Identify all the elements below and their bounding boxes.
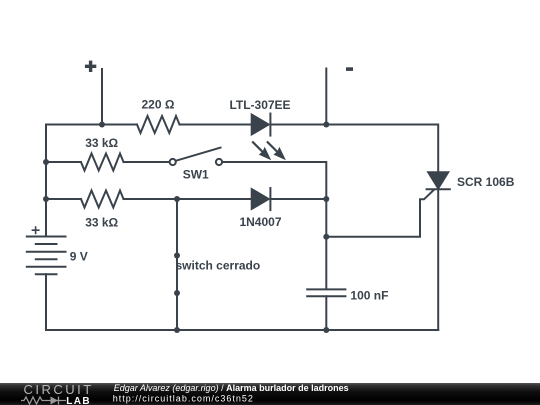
wire from capacitor to bottom rail [325,296,327,330]
node junction dot bus diode row [43,196,49,202]
battery V1 long plate 3 [27,266,66,268]
logo diode triangle [51,397,59,405]
wire from R2 to switch [124,161,170,163]
LED D1 LTL-307EE triangle [252,115,269,135]
wire battery negative to bottom rail [45,274,47,330]
LED arrow 1 shaft [253,142,264,152]
node junction dot top of plus stub [99,122,105,128]
switch SW1 lever [176,148,221,161]
wire negative terminal stub [325,69,327,125]
battery V1 short plate 3 [36,273,57,275]
svg-text:LTL-307EE: LTL-307EE [229,98,290,112]
svg-text:1N4007: 1N4007 [239,215,281,229]
svg-text:LAB: LAB [66,396,91,405]
resistor R3 33 kohm zigzag [81,191,124,208]
svg-text:SCR 106B: SCR 106B [457,175,515,189]
wire left bus vertical [45,125,47,237]
wire SCR gate run [326,190,433,237]
SCR Q1 cathode bar [427,188,450,190]
battery V1 short plate 2 [36,258,57,260]
logo diode cathode bar [58,397,60,405]
svg-text:CIRCUIT: CIRCUIT [24,382,94,397]
wire from R1 to LED anode [180,124,252,126]
node junction dot bus switch row [43,159,49,165]
svg-text:220 Ω: 220 Ω [142,98,175,112]
LED arrow 2 shaft [268,142,279,152]
LED D1 cathode bar [269,114,271,136]
resistor R1 220 ohm zigzag [137,116,180,133]
svg-text:SW1: SW1 [183,168,209,182]
svg-text:switch cerrado: switch cerrado [176,259,261,273]
wire from switch to right vertical [222,162,326,199]
node junction dot branch at bottom rail [174,327,180,333]
node junction dot diode row branch [174,196,180,202]
svg-text:Edgar Alvarez (edgar.rigo) / A: Edgar Alvarez (edgar.rigo) / Alarma burl… [114,383,349,393]
logo resistor zigzag [21,397,45,404]
capacitor C1 bottom plate [307,295,345,297]
svg-text:33 kΩ: 33 kΩ [85,216,118,230]
node junction dot switch-cerrado upper [174,253,180,259]
wire bottom rail [46,329,438,331]
wire switch row from bus to R2 [46,161,81,163]
battery V1 short plate 1 [36,243,57,245]
diode D2 1N4007 triangle [252,189,269,209]
node junction dot switch-cerrado lower [174,290,180,296]
wire switch-cerrado vertical branch [176,199,178,330]
wire from D2 cathode to right vertical [271,198,326,200]
node junction dot capacitor at bottom rail [323,327,329,333]
positive terminal symbol [85,61,96,72]
node junction dot minus stub at top rail [323,122,329,128]
wire from LED cathode to minus-node junction [271,124,326,126]
node junction dot diode cathode vertical [323,196,329,202]
switch SW1 left contact circle [170,159,176,165]
negative terminal symbol [346,67,353,71]
LED arrow 2 head [274,147,286,161]
wire positive terminal stub [101,69,103,125]
svg-text:9 V: 9 V [70,250,88,264]
LED arrow 1 head [259,147,271,161]
battery plus marker [32,226,40,234]
wire from junction to right corner above SCR [326,125,438,173]
wire SCR cathode to bottom rail [437,189,439,330]
SCR Q1 triangle [428,172,448,188]
wire right vertical from diode row to capacitor [325,199,327,289]
capacitor C1 top plate [307,288,345,290]
diode D2 cathode bar [269,188,271,210]
svg-text:33 kΩ: 33 kΩ [85,136,118,150]
battery V1 long plate 1 [27,236,66,238]
logo diode wire [45,400,66,402]
svg-text:http://circuitlab.com/c36tn52: http://circuitlab.com/c36tn52 [113,393,254,403]
switch SW1 right contact circle [216,159,222,165]
node junction dot gate takeoff [323,234,329,240]
wire from R3 to diode anode [124,198,252,200]
resistor R2 33 kohm zigzag [81,154,124,171]
battery V1 long plate 2 [27,251,66,253]
wire diode row from bus to R3 [46,198,81,200]
svg-text:100 nF: 100 nF [350,289,388,303]
wire top rail from left bus to 220 ohm resistor [46,124,137,126]
